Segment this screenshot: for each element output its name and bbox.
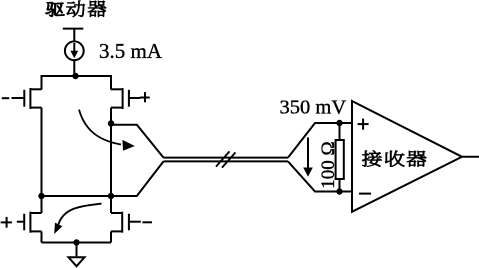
current flow arrow (top, curved) [79, 110, 121, 145]
node: resistor bottom junction [336, 188, 342, 194]
svg-text:350 mV: 350 mV [280, 97, 347, 119]
wire M4 source down to bottom rail [110, 231, 112, 242]
supply bar (top terminal of current source) [63, 28, 84, 30]
op-amp U1 receiver triangle [352, 101, 462, 212]
transmission line lower conductor [164, 160, 289, 162]
wire current source to top rail [73, 60, 75, 76]
wire supply bar to current source [73, 29, 75, 42]
wire node A to transmission line (upper) [111, 125, 164, 158]
mid rail wire and diagonal to transmission line (lower) [42, 161, 164, 196]
op-amp output wire [462, 156, 479, 158]
wire M1 source down left rail [41, 108, 43, 196]
current flow arrow (bottom, curved) [58, 204, 101, 225]
top rail wire [42, 76, 112, 90]
wire M4 drain up to node C [110, 196, 112, 213]
transistor M3 (bottom-left NMOS) [17, 212, 42, 233]
ground [76, 243, 78, 257]
node: top rail junction [72, 73, 78, 79]
wire: lower diagonal into termination [288, 161, 352, 191]
op-amp - input label [359, 193, 371, 195]
wire M3 source down to bottom rail [41, 231, 43, 242]
node: resistor top junction [336, 120, 342, 126]
transistor M4 (bottom-right NMOS) [111, 212, 141, 233]
node B junction dot (mid rail left) [38, 193, 44, 199]
wire M3 drain up to node B [41, 196, 43, 213]
bottom rail wire [42, 242, 112, 244]
label "-" at M1 gate [2, 97, 9, 99]
transmission line upper conductor [164, 157, 289, 159]
label "+" at M3 gate [1, 221, 12, 223]
transmission line break slashes [216, 151, 230, 166]
text label "receiver" (Chinese: 接收器) [362, 151, 426, 167]
node A junction dot [108, 120, 114, 126]
current arrow (350mV drop direction) [307, 138, 309, 169]
wire M2 source down to node A [110, 108, 112, 196]
resistor R1 100 ohm (rectangle) [336, 140, 344, 179]
node C junction dot (mid rail right) [108, 193, 114, 199]
node: ground tap junction [73, 239, 79, 245]
op-amp + input label [358, 123, 369, 125]
wire: upper diagonal into termination [288, 123, 352, 158]
svg-text:100 Ω: 100 Ω [318, 141, 339, 188]
transistor M2 (top-right PMOS) [111, 88, 140, 109]
text label "driver" (Chinese: 驱动器) [46, 1, 107, 17]
label "+" at M2 gate [140, 97, 150, 99]
svg-text:3.5 mA: 3.5 mA [99, 39, 163, 63]
transistor M1 (top-left PMOS) [12, 88, 42, 109]
current source I1 (circle with down arrow) [65, 41, 84, 60]
label "-" at M4 gate [143, 221, 153, 223]
